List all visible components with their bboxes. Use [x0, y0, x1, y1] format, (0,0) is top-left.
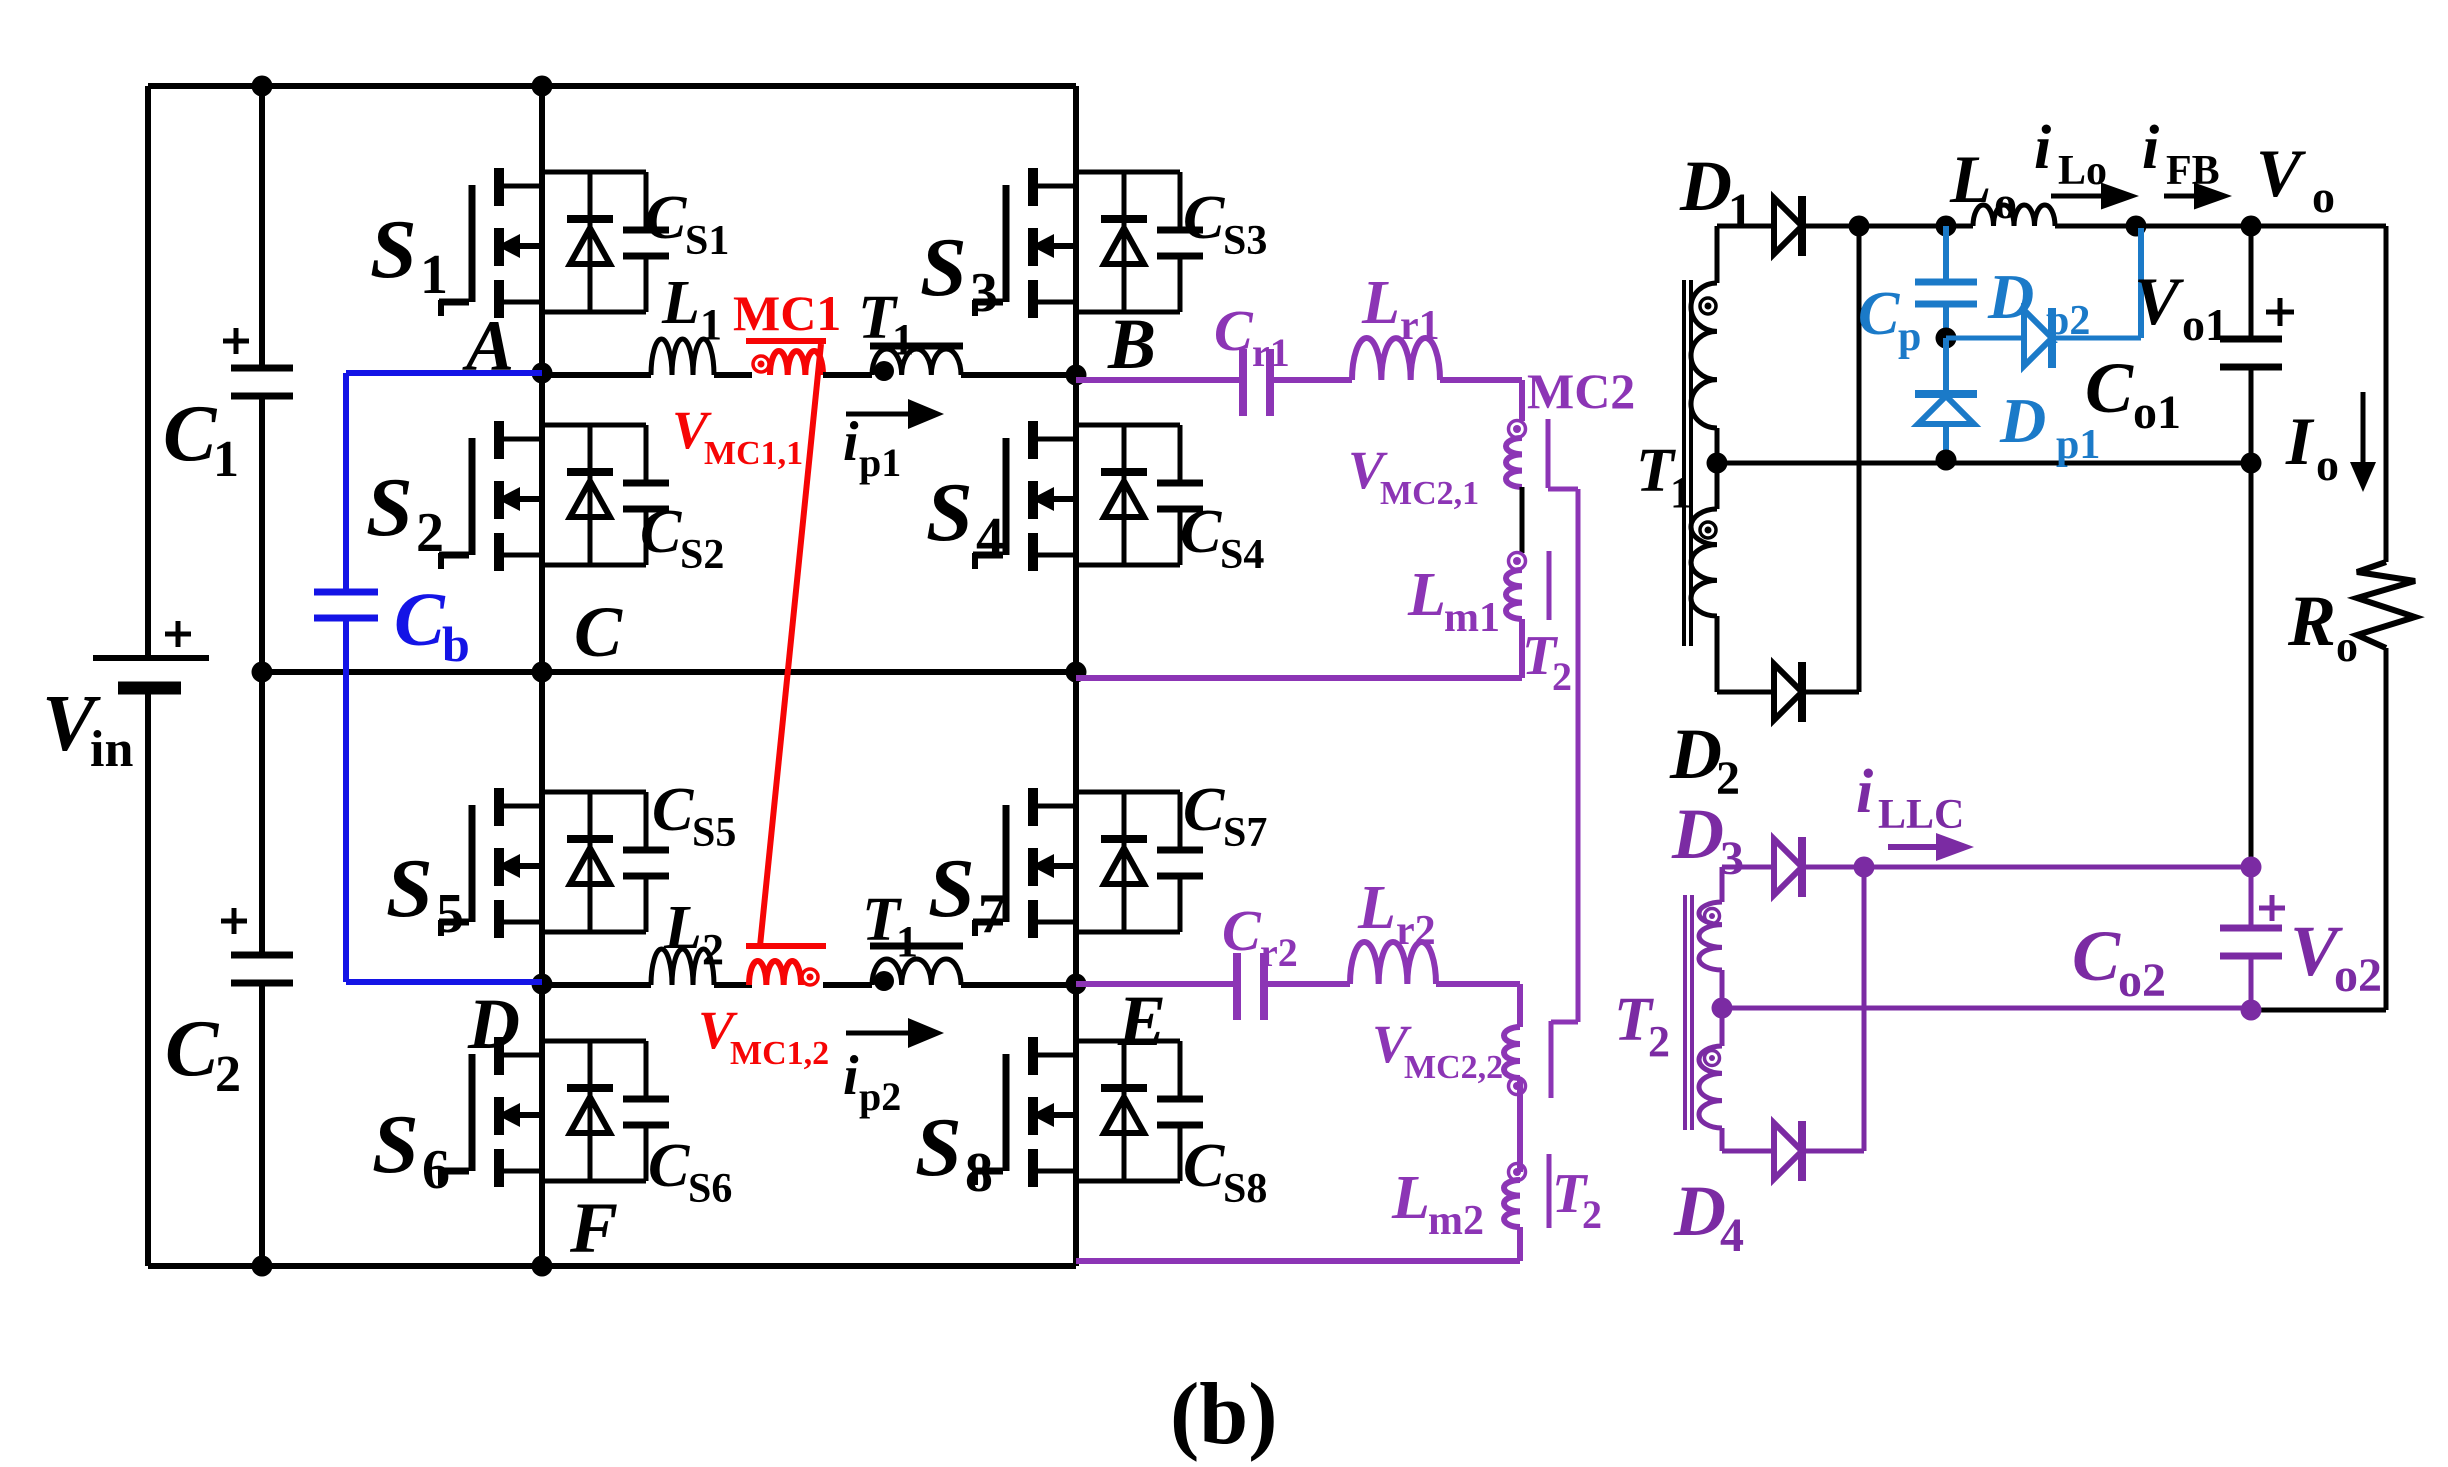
wire E to Cr2: [1076, 981, 1234, 987]
svg-text:S: S: [386, 842, 433, 935]
svg-text:C: C: [2072, 916, 2121, 996]
T1 secondary winding top: [1691, 283, 1717, 428]
svg-text:MC1: MC1: [733, 285, 841, 341]
svg-text:m1: m1: [1444, 595, 1500, 641]
svg-text:p: p: [1898, 314, 1921, 360]
svg-text:S3: S3: [1223, 218, 1267, 264]
node E: [1066, 974, 1087, 995]
svg-text:MC1,2: MC1,2: [730, 1035, 829, 1072]
wire D2 up to D1 junction: [1802, 690, 1859, 695]
coupled inductor MC1 winding 2: [746, 943, 826, 949]
svg-text:3: 3: [1720, 832, 1744, 885]
svg-text:p1: p1: [859, 440, 901, 485]
wire Lr1 to MC2: [1440, 377, 1522, 383]
snubber capacitor Cp (blue): [1943, 226, 1949, 279]
svg-text:C: C: [163, 390, 218, 478]
svg-text:2: 2: [416, 502, 444, 564]
svg-text:C: C: [394, 578, 446, 662]
svg-text:L: L: [1361, 269, 1400, 337]
wire A to L1: [542, 372, 651, 378]
black link MC2,1 to Lm1: [1520, 487, 1525, 553]
wire rect out to Lo: [1859, 224, 1946, 229]
wire Lo to Vo: [2055, 224, 2386, 229]
svg-text:7: 7: [978, 883, 1006, 945]
svg-text:S7: S7: [1223, 810, 1267, 856]
diode D2: [1774, 664, 1802, 720]
svg-text:i: i: [2034, 114, 2051, 182]
svg-text:S: S: [920, 221, 967, 314]
svg-text:m2: m2: [1428, 1198, 1484, 1244]
svg-text:I: I: [2285, 403, 2315, 479]
wire Lm2 back to bottom rail: [1517, 1227, 1523, 1261]
svg-text:C: C: [645, 184, 687, 252]
svg-text:C: C: [1180, 498, 1222, 566]
bar of MC2 winding 2: [1549, 1021, 1554, 1098]
inductor Lr2: [1350, 942, 1436, 984]
wire T2 top to D3: [1720, 867, 1725, 902]
svg-text:p2: p2: [2046, 298, 2090, 344]
svg-text:L: L: [663, 894, 702, 962]
current arrow Io: [2361, 392, 2366, 468]
svg-text:S8: S8: [1223, 1166, 1267, 1212]
wire D1 to junction: [1802, 224, 1859, 229]
svg-text:C: C: [1858, 280, 1900, 348]
wire: mid rail (node C): [262, 669, 1076, 675]
svg-text:o1: o1: [2133, 386, 2181, 439]
svg-text:r2: r2: [1260, 930, 1298, 975]
svg-text:F: F: [569, 1188, 618, 1268]
svg-text:S: S: [372, 1098, 419, 1191]
svg-text:LLC: LLC: [1878, 792, 1964, 838]
T2 secondary winding bottom: [1699, 1046, 1722, 1128]
svg-text:D: D: [1669, 714, 1722, 794]
svg-text:1: 1: [420, 244, 448, 306]
capacitor Cb: [314, 589, 378, 596]
wire: C1/C2 column: [259, 86, 265, 365]
wire T1 top to D1: [1715, 226, 1720, 283]
svg-text:Lo: Lo: [2058, 148, 2107, 194]
svg-text:MC2,2: MC2,2: [1404, 1049, 1503, 1086]
svg-text:C: C: [1183, 776, 1225, 844]
svg-text:L: L: [1391, 1164, 1430, 1232]
svg-text:r1: r1: [1252, 330, 1290, 375]
diode D4: [1774, 1123, 1802, 1179]
svg-text:C: C: [648, 1132, 690, 1200]
svg-text:i: i: [843, 1045, 859, 1107]
transformer T1 primary winding (upper): [870, 343, 963, 350]
svg-text:i: i: [2142, 114, 2159, 182]
T1 center tap: [1715, 428, 1720, 509]
svg-text:o2: o2: [2334, 949, 2382, 1002]
wire center tap to Io node: [1717, 461, 2251, 466]
current arrow iLLC: [1888, 844, 1942, 850]
svg-text:R: R: [2287, 581, 2336, 661]
svg-text:r1: r1: [1400, 303, 1440, 349]
transistor S3: [973, 168, 1203, 318]
wire D4 up to D3 junction: [1802, 1149, 1864, 1154]
wire: right bridge leg (S3,S4,S7,S8): [1073, 86, 1079, 1266]
svg-text:E: E: [1117, 981, 1166, 1061]
svg-text:p1: p1: [2056, 422, 2100, 468]
svg-text:o: o: [2312, 171, 2335, 222]
node Io: [2241, 453, 2262, 474]
transistor S4: [973, 421, 1203, 571]
svg-text:D: D: [467, 984, 520, 1064]
svg-text:8: 8: [965, 1142, 993, 1204]
capacitor Cr2: [1233, 953, 1241, 1020]
svg-text:FB: FB: [2166, 148, 2220, 194]
wire D3 junction to Co2 top: [1864, 865, 2251, 870]
svg-text:L: L: [1407, 561, 1446, 629]
svg-text:S: S: [915, 1101, 962, 1194]
svg-text:1: 1: [213, 431, 239, 488]
node D: [532, 974, 553, 995]
svg-text:2: 2: [1582, 1192, 1602, 1237]
wire: blue branch Cb to D: [343, 621, 349, 982]
transformer T1 primary winding (lower): [870, 943, 963, 950]
wire Vo to Ro: [2251, 224, 2386, 229]
svg-text:4: 4: [976, 507, 1004, 569]
transistor S1: [439, 168, 669, 318]
svg-text:(b): (b): [1170, 1366, 1278, 1463]
svg-text:2: 2: [1648, 1017, 1670, 1066]
wire Lr2 to MC2 winding 2: [1436, 981, 1520, 987]
wire T2 bottom to D4: [1720, 1128, 1725, 1151]
svg-text:2: 2: [1552, 654, 1572, 699]
diode D3: [1774, 839, 1802, 895]
svg-text:in: in: [90, 721, 133, 778]
svg-text:V: V: [2134, 263, 2184, 339]
svg-text:L: L: [661, 269, 700, 337]
svg-text:1: 1: [1728, 184, 1752, 237]
svg-text:i: i: [843, 411, 859, 473]
svg-text:4: 4: [1720, 1209, 1744, 1262]
wire: left bridge leg (S1,S2,S5,S6): [539, 86, 545, 1266]
svg-text:1: 1: [896, 917, 918, 966]
transformer T2 core: [1683, 895, 1687, 1130]
svg-text:b: b: [442, 616, 470, 672]
T2 secondary winding top: [1699, 902, 1722, 970]
wire: blue branch A to Cb: [346, 370, 542, 376]
node: bottom-rail junctions: [252, 1256, 273, 1277]
wire Ro to Co2 bottom: [2384, 648, 2389, 1010]
coupled inductor MC2 winding 1: [1506, 438, 1522, 487]
svg-text:L: L: [1357, 874, 1396, 942]
wire MC1 to T1: [823, 372, 872, 378]
wire T2 center tap to Co2: [1722, 1006, 2251, 1011]
transistor S5: [439, 788, 669, 938]
inductor L1: [651, 339, 714, 375]
current arrow ip1: [846, 412, 914, 417]
svg-text:C: C: [1214, 298, 1254, 363]
T2 center tap: [1720, 970, 1725, 1046]
wire L2 to MC1 winding 2: [714, 982, 752, 988]
capacitor C2: [231, 952, 293, 959]
magnetizing inductor Lm1: [1506, 570, 1522, 619]
svg-text:L: L: [1949, 141, 1992, 217]
svg-text:B: B: [1107, 304, 1156, 384]
wire Cr1 to Lr1: [1274, 377, 1352, 383]
inductor Lo: [1973, 205, 2055, 226]
svg-text:S: S: [366, 461, 413, 554]
wire MC1 to T1 (lower): [823, 982, 872, 988]
output capacitor Co1: [2249, 226, 2254, 336]
svg-text:S5: S5: [692, 810, 736, 856]
diode Dp2 (blue): [1946, 336, 2024, 341]
inductor Lr1: [1352, 338, 1440, 380]
svg-text:V: V: [2256, 135, 2306, 211]
transistor S8: [973, 1037, 1203, 1187]
wire D to L2: [542, 982, 651, 988]
node: mid-rail / C junctions: [252, 662, 273, 683]
svg-text:D: D: [1987, 261, 2034, 332]
red link MC1 windings: [760, 344, 821, 946]
svg-text:C: C: [1183, 1132, 1225, 1200]
svg-text:C: C: [1222, 898, 1262, 963]
wire B to Cr1: [1076, 377, 1240, 383]
diode D1: [1774, 198, 1802, 254]
wire: left input loop: [145, 86, 151, 658]
svg-text:i: i: [1856, 758, 1873, 826]
transistor S6: [439, 1037, 669, 1187]
svg-text:2: 2: [215, 1046, 241, 1103]
svg-text:D: D: [1679, 146, 1732, 226]
T1 secondary winding bottom: [1691, 509, 1717, 616]
svg-text:o: o: [2336, 622, 2358, 671]
svg-text:D: D: [1673, 1171, 1726, 1251]
current arrow iLo: [2051, 194, 2107, 199]
svg-text:2: 2: [702, 925, 724, 974]
svg-text:o: o: [1994, 177, 2017, 228]
svg-text:C: C: [652, 776, 694, 844]
svg-text:MC2,1: MC2,1: [1380, 475, 1479, 512]
wire T1 to B: [961, 372, 1076, 378]
wire T1 bottom to D2: [1715, 616, 1720, 692]
node B: [1066, 365, 1087, 386]
capacitor Cr1: [1239, 349, 1247, 416]
svg-text:1: 1: [700, 300, 722, 349]
svg-text:1: 1: [892, 315, 914, 364]
svg-text:S4: S4: [1220, 532, 1264, 578]
svg-text:p2: p2: [859, 1074, 901, 1119]
svg-text:3: 3: [970, 262, 998, 324]
svg-text:C: C: [2085, 348, 2134, 428]
wire MC2,2 to Lm2: [1517, 1078, 1523, 1172]
output capacitor Co2: [2241, 857, 2262, 878]
svg-text:C: C: [165, 1005, 220, 1093]
coupled inductor MC2 winding 2: [1504, 1027, 1520, 1078]
svg-text:S1: S1: [685, 218, 729, 264]
current arrow ip2: [846, 1031, 914, 1036]
svg-text:C: C: [574, 592, 623, 672]
inductor L2: [651, 949, 714, 985]
svg-text:5: 5: [436, 883, 464, 945]
svg-text:C: C: [640, 498, 682, 566]
node: top-rail / C1 junction: [252, 76, 273, 97]
wire Cr2 to Lr2: [1268, 981, 1350, 987]
coupled inductor MC1 winding 1: [746, 338, 826, 344]
capacitor C1: [231, 365, 293, 372]
resistor Ro: [2357, 562, 2415, 648]
svg-text:D: D: [1999, 385, 2046, 456]
svg-text:S: S: [926, 466, 973, 559]
svg-text:o: o: [2316, 439, 2339, 490]
svg-text:MC2: MC2: [1527, 363, 1635, 419]
svg-text:S6: S6: [688, 1166, 732, 1212]
svg-text:o2: o2: [2118, 954, 2166, 1007]
svg-text:6: 6: [422, 1139, 450, 1201]
wire L1 to MC1: [714, 372, 752, 378]
svg-text:C: C: [1183, 184, 1225, 252]
magnetizing inductor Lm2: [1504, 1180, 1520, 1227]
wire: bottom rail: [148, 1263, 1076, 1269]
svg-text:r2: r2: [1396, 908, 1436, 954]
diode Dp1 (blue): [1943, 338, 1949, 392]
svg-text:D: D: [1671, 794, 1724, 874]
node: top-rail / S1-leg junction: [532, 76, 553, 97]
transformer T1 core: [1682, 280, 1686, 646]
svg-text:S: S: [370, 203, 417, 296]
wire Lm1 back to node C rail: [1519, 619, 1525, 678]
wire: top rail: [148, 83, 1076, 89]
battery Vin: [93, 655, 209, 661]
wire D3 to junction: [1802, 865, 1864, 870]
wire T1 to E: [961, 982, 1076, 988]
transistor S7: [973, 788, 1203, 938]
transistor S2: [439, 421, 669, 571]
node A: [532, 363, 553, 384]
purple link to MC2 winding 2: [1548, 487, 1578, 492]
svg-text:1: 1: [1670, 468, 1692, 517]
current arrow iFB: [2164, 194, 2200, 199]
svg-text:o1: o1: [2182, 299, 2228, 350]
svg-text:S: S: [928, 842, 975, 935]
svg-text:S2: S2: [680, 532, 724, 578]
svg-text:MC1,1: MC1,1: [704, 435, 803, 472]
